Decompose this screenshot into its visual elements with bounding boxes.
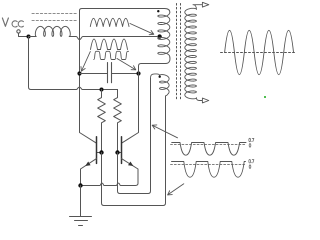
- base waveform 2: [172, 162, 246, 178]
- wire bias feed (hops over collector line): [29, 37, 118, 90]
- transistor Q1 emitter arrow: [85, 162, 90, 167]
- wire base line Q2 to feedback winding top: [118, 78, 151, 193]
- node Vcc junction: [27, 35, 31, 39]
- label 0.7 upper: [249, 138, 254, 142]
- label 0 lower: [249, 165, 251, 169]
- transformer primary winding: [158, 12, 170, 57]
- node Q1 base: [99, 150, 103, 154]
- label 0.7 lower: [249, 159, 254, 163]
- capacitor C1 left wire: [80, 73, 108, 75]
- transformer secondary winding: [185, 8, 197, 99]
- stray green dot: [264, 96, 266, 98]
- wire Vcc terminal to node: [19, 33, 28, 36]
- wire Q2 collector riser and bottom lead: [122, 57, 170, 143]
- ground: [70, 186, 92, 226]
- waveform current humps (top): [90, 18, 129, 26]
- node emitter junction: [78, 183, 82, 187]
- transformer feedback winding: [151, 74, 170, 96]
- transistor Q2 base bar: [121, 137, 123, 164]
- wire Q1 base stub: [97, 152, 102, 154]
- node bias junction: [100, 88, 104, 92]
- transistor Q2 emitter: [81, 159, 139, 186]
- node cap left on collector line: [77, 71, 81, 75]
- feedback phasing dot: [159, 76, 161, 78]
- capacitor C1 right wire: [112, 73, 139, 75]
- base waveform 1: [172, 143, 246, 156]
- wire Q1 collector riser and top lead: [80, 9, 170, 144]
- primary phasing dot: [157, 10, 159, 12]
- base waveform 2 axis: [171, 164, 247, 166]
- capacitor C1 plates: [108, 63, 112, 83]
- Vcc terminal: [17, 30, 20, 33]
- output sine axis: [221, 52, 297, 54]
- resistor R2: [114, 90, 122, 153]
- transistor Q2 emitter arrow: [128, 162, 133, 167]
- dashed rows top-left: [32, 14, 78, 21]
- secondary bottom lead: [196, 98, 202, 101]
- waveform collector humps: [91, 39, 128, 49]
- base waveform 1 axis: [171, 144, 247, 146]
- output sine wave: [225, 30, 294, 74]
- secondary bottom terminal arrow: [202, 98, 208, 103]
- wire base line Q1 to feedback winding bottom: [102, 96, 166, 206]
- arrow to center tap: [130, 24, 154, 35]
- wire Vcc run to center tap (hops under collector line): [69, 37, 157, 40]
- transistor Q1 emitter: [81, 159, 97, 186]
- node cap right on collector line: [136, 71, 140, 75]
- waveform clipped pulses: [94, 51, 129, 59]
- resistor R1: [98, 90, 106, 153]
- inductor L1 (RFC): [29, 26, 71, 36]
- arrow to left collector node: [82, 52, 91, 72]
- node Q2 base: [115, 150, 119, 154]
- arrow to base feed wire upper: [152, 125, 177, 138]
- transformer core: [177, 4, 181, 101]
- label Vcc: [2, 18, 8, 26]
- label 0 upper: [249, 144, 251, 148]
- arrow to base feed wire lower: [168, 184, 184, 195]
- wire Q2 base stub: [118, 152, 122, 154]
- transistor Q1 base bar: [96, 137, 98, 164]
- node primary center tap: [157, 34, 161, 38]
- secondary top terminal arrow: [202, 2, 208, 7]
- secondary top lead: [193, 5, 202, 10]
- arrow to right collector node: [117, 59, 136, 70]
